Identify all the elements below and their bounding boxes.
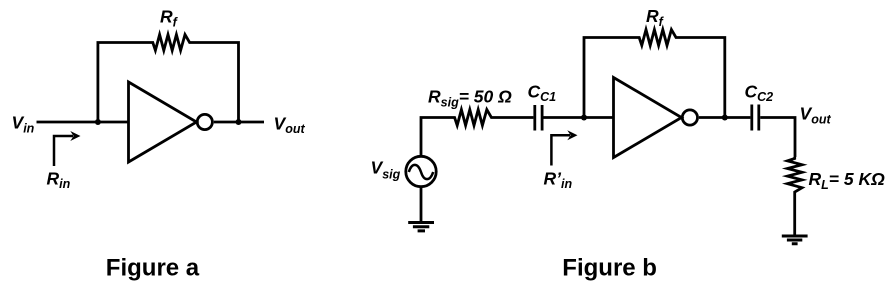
svg-text:RL= 5 KΩ: RL= 5 KΩ: [809, 169, 886, 192]
svg-text:Figure b: Figure b: [562, 255, 657, 282]
svg-text:Rsig= 50 Ω: Rsig= 50 Ω: [428, 86, 512, 109]
svg-text:Figure a: Figure a: [106, 255, 200, 282]
